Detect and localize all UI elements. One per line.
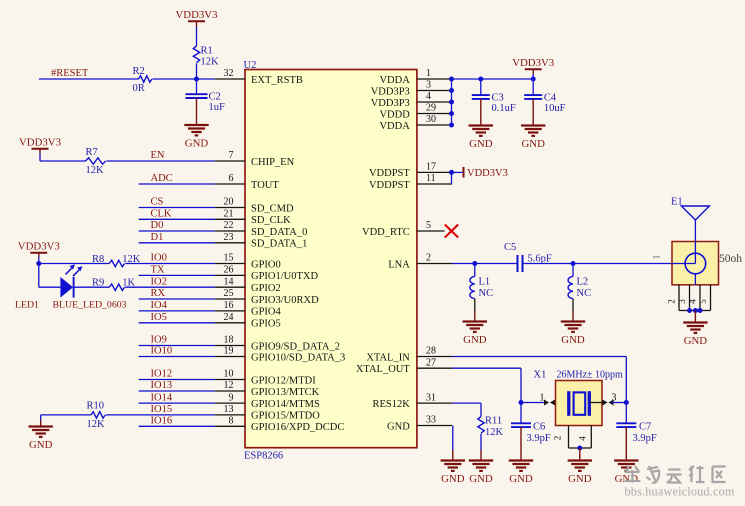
svg-text:GPIO12/MTDI: GPIO12/MTDI (251, 375, 316, 386)
LED1 value BLUE_LED_0603 (53, 300, 127, 311)
svg-text:GND: GND (441, 473, 465, 485)
svg-text:LNA: LNA (388, 259, 410, 270)
net label IO13 (151, 380, 173, 391)
svg-text:#RESET: #RESET (51, 68, 89, 79)
capacitor C2 (186, 92, 226, 114)
net label IO10 (151, 346, 173, 357)
svg-text:15: 15 (224, 253, 234, 264)
svg-text:VDD_RTC: VDD_RTC (362, 227, 410, 238)
svg-text:L1: L1 (479, 277, 491, 288)
svg-text:IO2: IO2 (151, 276, 167, 287)
svg-text:GND: GND (561, 334, 585, 346)
wire L2 to ground (572, 299, 574, 311)
svg-text:U2: U2 (244, 60, 257, 71)
wire IO4 (139, 310, 215, 312)
svg-text:GND: GND (521, 138, 545, 150)
inductor L2 NC (568, 277, 591, 300)
svg-text:RX: RX (151, 288, 166, 299)
svg-text:CLK: CLK (151, 209, 172, 220)
svg-text:LED1: LED1 (15, 300, 39, 311)
svg-text:D0: D0 (151, 220, 164, 231)
wire L1 lead (474, 264, 476, 277)
svg-text:VDDPST: VDDPST (369, 168, 410, 179)
node junction VDD3V3/R8/LED (36, 261, 41, 266)
wire RES12K to R11 (452, 403, 481, 416)
wire bus to C3 (480, 79, 482, 95)
capacitor C7 (616, 422, 657, 444)
net label ADC (151, 173, 173, 184)
svg-text:25: 25 (224, 288, 234, 299)
svg-text:L2: L2 (577, 277, 589, 288)
U2 part name ESP8266 (244, 451, 283, 462)
wire XTAL_IN (452, 357, 626, 403)
ground GND (C4) (521, 99, 545, 150)
ground GND (L2) (561, 311, 585, 346)
svg-text:20: 20 (224, 197, 234, 208)
wire IO10 (139, 356, 215, 358)
svg-text:VDDA: VDDA (379, 121, 410, 132)
svg-text:GPIO14/MTMS: GPIO14/MTMS (251, 399, 320, 410)
svg-text:BLUE_LED_0603: BLUE_LED_0603 (53, 300, 127, 311)
wire L2 lead (572, 264, 574, 277)
svg-text:12: 12 (224, 380, 234, 391)
wire EN (107, 160, 216, 162)
wire GND pin 33 (452, 426, 454, 451)
svg-text:30: 30 (426, 114, 436, 125)
svg-text:D1: D1 (151, 232, 164, 243)
svg-text:IO10: IO10 (151, 346, 173, 357)
wire node to C6 (520, 403, 522, 424)
wire R11 to ground (480, 434, 482, 450)
wire CLK (139, 218, 215, 220)
svg-text:29: 29 (426, 103, 436, 114)
svg-text:1: 1 (540, 392, 545, 403)
wire IO15 (106, 414, 215, 416)
svg-text:24: 24 (224, 312, 234, 323)
ground GND (pin 33) (441, 450, 465, 485)
svg-text:9: 9 (229, 392, 234, 403)
svg-text:VDDPST: VDDPST (369, 180, 410, 191)
crystal X1 designator (534, 370, 547, 381)
svg-text:3.9pF: 3.9pF (527, 433, 551, 444)
power port VDD3V3 (LED) (18, 241, 60, 257)
antenna E1 designator (671, 196, 683, 207)
svg-text:IO13: IO13 (151, 380, 173, 391)
svg-text:C7: C7 (639, 422, 651, 433)
svg-text:GND: GND (29, 439, 53, 451)
svg-text:C3: C3 (492, 92, 504, 103)
svg-text:C2: C2 (209, 92, 221, 103)
wire #RESET (39, 78, 139, 80)
svg-text:SD_DATA_1: SD_DATA_1 (251, 239, 307, 250)
wire node to R8 (39, 263, 110, 265)
ground GND (R11) (469, 450, 493, 485)
svg-text:IO5: IO5 (151, 312, 167, 323)
U2 left pin numbers (224, 68, 234, 426)
wire D0 (139, 230, 215, 232)
junction dot C4 tap (531, 77, 536, 82)
wire VDDPST to power port (452, 171, 463, 173)
svg-text:EN: EN (151, 150, 165, 161)
svg-text:32: 32 (224, 68, 234, 79)
svg-text:1uF: 1uF (209, 102, 226, 113)
svg-text:5.6pF: 5.6pF (528, 253, 552, 264)
svg-text:21: 21 (224, 209, 234, 220)
svg-text:GND: GND (509, 473, 533, 485)
pin number 3 (X1) (612, 392, 617, 403)
wire VDD3V3 to R7 (40, 153, 86, 161)
svg-text:IO16: IO16 (151, 416, 173, 427)
capacitor C3 (472, 92, 516, 114)
svg-text:VDDA: VDDA (379, 75, 410, 86)
svg-text:R11: R11 (485, 415, 502, 426)
net label TX (151, 265, 165, 276)
no-connect X on VDD_RTC pin 5 (445, 225, 458, 238)
connector E1 body (672, 242, 719, 285)
svg-text:ADC: ADC (151, 173, 173, 184)
svg-text:GPIO4: GPIO4 (251, 307, 282, 318)
wire IO13 (139, 390, 215, 392)
svg-text:17: 17 (426, 162, 436, 173)
U2 left pin stubs (215, 79, 245, 426)
svg-text:GPIO5: GPIO5 (251, 319, 281, 330)
wire VDD3V3 to node (38, 257, 40, 264)
svg-text:2: 2 (553, 436, 563, 441)
antenna symbol (681, 206, 709, 242)
svg-text:GPIO13/MTCK: GPIO13/MTCK (251, 387, 320, 398)
svg-text:SD_CMD: SD_CMD (251, 203, 294, 214)
wire GND to R10 (41, 415, 91, 420)
wire R1 to node (196, 63, 198, 79)
svg-text:5: 5 (698, 299, 708, 304)
svg-text:33: 33 (426, 415, 436, 426)
svg-text:GPIO16/XPD_DCDC: GPIO16/XPD_DCDC (251, 422, 344, 433)
svg-text:12K: 12K (485, 427, 504, 438)
junction dot C3 tap (478, 77, 483, 82)
capacitor C6 (511, 422, 551, 444)
wire VDD3V3 to bus (532, 74, 534, 79)
wire L1 to ground (474, 299, 476, 311)
resistor R7 (86, 147, 106, 176)
wire XTAL_OUT (452, 368, 521, 402)
svg-text:16: 16 (224, 300, 234, 311)
svg-text:31: 31 (426, 392, 436, 403)
wire LNA to C5 (452, 263, 518, 265)
node junction R1/R2/C2 (194, 77, 199, 82)
wire ADC (139, 183, 215, 185)
svg-text:5: 5 (426, 220, 431, 231)
svg-text:26MHz± 10ppm: 26MHz± 10ppm (557, 370, 624, 381)
net label IO12 (151, 369, 173, 380)
svg-text:14: 14 (224, 276, 234, 287)
svg-text:VDD3V3: VDD3V3 (512, 57, 554, 69)
wire power bus vertical (451, 79, 453, 125)
ground GND (E1) (683, 311, 707, 348)
svg-text:IO12: IO12 (151, 369, 173, 380)
ground GND (L1) (463, 311, 487, 346)
LED LED1 BLUE_LED_0603 (60, 264, 82, 297)
resistor R9 (92, 278, 135, 291)
svg-text:VDDD: VDDD (379, 109, 410, 120)
wire node to LED (39, 264, 61, 288)
svg-text:R7: R7 (86, 147, 98, 158)
svg-text:GND: GND (185, 138, 209, 150)
svg-text:26: 26 (224, 265, 234, 276)
pin number 1 (E1) (652, 255, 662, 260)
svg-text:7: 7 (229, 150, 234, 161)
svg-text:R10: R10 (87, 400, 105, 411)
svg-text:C5: C5 (504, 242, 516, 253)
svg-text:4: 4 (578, 436, 588, 441)
wire IO12 (139, 379, 215, 381)
svg-text:10: 10 (224, 369, 234, 380)
wire CS (139, 207, 215, 209)
svg-text:2: 2 (426, 253, 431, 264)
svg-text:3: 3 (612, 392, 617, 403)
svg-text:12K: 12K (86, 165, 105, 176)
svg-text:28: 28 (426, 346, 436, 357)
svg-text:SD_DATA_0: SD_DATA_0 (251, 227, 307, 238)
svg-text:12K: 12K (201, 56, 220, 67)
wire C5 to antenna (523, 263, 673, 265)
svg-text:12K: 12K (87, 419, 106, 430)
svg-text:10uF: 10uF (544, 103, 566, 114)
svg-text:GND: GND (469, 138, 493, 150)
wire D1 (139, 242, 215, 244)
svg-text:3.9pF: 3.9pF (633, 433, 657, 444)
wire power bus horizontal (452, 78, 534, 80)
U2 right pin stubs (417, 79, 452, 426)
net label CLK (151, 209, 172, 220)
net label IO9 (151, 335, 167, 346)
U2 designator (244, 60, 257, 71)
svg-text:ESP8266: ESP8266 (244, 451, 283, 462)
svg-text:GPIO15/MTDO: GPIO15/MTDO (251, 411, 320, 422)
wire IO2 (125, 286, 215, 288)
U2 right pin numbers (426, 68, 436, 426)
svg-text:VDD3P3: VDD3P3 (371, 86, 410, 97)
svg-text:0R: 0R (133, 83, 145, 94)
ground GND (C3) (469, 99, 493, 150)
svg-text:GPIO2: GPIO2 (251, 283, 281, 294)
svg-text:27: 27 (426, 357, 436, 368)
resistor R11 (478, 415, 504, 437)
svg-text:IO4: IO4 (151, 300, 168, 311)
svg-text:IO9: IO9 (151, 335, 167, 346)
svg-text:IO0: IO0 (151, 253, 167, 264)
power port VDD3V3 (C4) (512, 57, 554, 74)
U2 left pin names (251, 75, 345, 433)
svg-text:GPIO1/U0TXD: GPIO1/U0TXD (251, 271, 318, 282)
svg-text:19: 19 (224, 346, 234, 357)
ground GND (C2) (184, 98, 208, 150)
svg-text:3: 3 (426, 80, 431, 91)
LED1 designator (15, 300, 39, 311)
svg-text:C4: C4 (544, 92, 557, 103)
power port VDD3V3 (EN) (19, 137, 61, 154)
net label #RESET (51, 68, 89, 79)
svg-text:VDD3P3: VDD3P3 (371, 98, 410, 109)
U2 right pin names (356, 75, 411, 433)
wire node to C7 (625, 403, 627, 424)
wire IO9 (139, 345, 215, 347)
wire crystal pin3 to node (612, 402, 627, 404)
svg-text:XTAL_OUT: XTAL_OUT (356, 364, 411, 375)
net label IO5 (151, 312, 167, 323)
wire RX (139, 298, 215, 300)
junction dot L1 tap (472, 261, 477, 266)
svg-text:R1: R1 (201, 46, 213, 57)
svg-text:13: 13 (224, 404, 234, 415)
svg-text:TOUT: TOUT (251, 180, 279, 191)
wire R2 to pin 32 (153, 78, 216, 80)
svg-text:VDD3V3: VDD3V3 (176, 9, 218, 21)
value 50oh (719, 253, 742, 265)
crystal bottom pins 2,4 (553, 426, 592, 449)
wire to crystal pin 1 (521, 402, 546, 404)
svg-text:1: 1 (426, 68, 431, 79)
svg-text:bbs.huaweicloud.com: bbs.huaweicloud.com (625, 485, 735, 499)
power port VDD3V3 (VDDPST) (464, 167, 508, 179)
power port VDD3V3 (top, R1) (176, 9, 218, 27)
svg-text:4: 4 (426, 91, 431, 102)
svg-text:VDD3V3: VDD3V3 (18, 241, 60, 253)
svg-text:4: 4 (688, 299, 698, 304)
svg-text:2: 2 (667, 299, 677, 304)
svg-text:GPIO9/SD_DATA_2: GPIO9/SD_DATA_2 (251, 341, 340, 352)
watermark text (625, 466, 735, 499)
junction dot crystal bottom (577, 446, 582, 451)
net label CS (151, 197, 164, 208)
net label IO15 (151, 404, 173, 415)
svg-text:1: 1 (652, 255, 662, 260)
svg-text:NC: NC (479, 288, 494, 299)
junction dot VDDPST (449, 170, 454, 175)
junction dots E1 bottom (687, 308, 703, 313)
junction dot crystal left (519, 400, 524, 405)
svg-text:50oh: 50oh (719, 253, 742, 265)
svg-text:NC: NC (577, 288, 592, 299)
svg-text:R2: R2 (133, 66, 145, 77)
svg-text:R8: R8 (92, 254, 104, 265)
svg-text:GND: GND (568, 473, 592, 485)
svg-text:3: 3 (677, 299, 687, 304)
svg-text:IO15: IO15 (151, 404, 173, 415)
svg-text:R9: R9 (92, 278, 104, 289)
svg-text:VDD3V3: VDD3V3 (19, 137, 61, 149)
capacitor C5 (504, 242, 552, 272)
svg-text:6: 6 (229, 173, 234, 184)
svg-text:GND: GND (387, 422, 410, 433)
wire VDD3V3 to R1 (196, 27, 198, 46)
net label D0 (151, 220, 164, 231)
svg-text:18: 18 (224, 335, 234, 346)
svg-text:GPIO10/SD_DATA_3: GPIO10/SD_DATA_3 (251, 352, 345, 363)
svg-text:CS: CS (151, 197, 164, 208)
wire LED to R9 (75, 286, 110, 288)
wire IO14 (139, 402, 215, 404)
wire IO5 (139, 322, 215, 324)
svg-text:C6: C6 (533, 422, 545, 433)
capacitor C4 (524, 92, 565, 114)
svg-text:23: 23 (224, 232, 234, 243)
wire bus to C4 (532, 79, 534, 95)
svg-text:8: 8 (229, 416, 234, 427)
IC U2 ESP8266 body (245, 70, 417, 448)
ground GND (C7) (614, 427, 638, 485)
junction dots power bus (449, 77, 454, 128)
resistor R2 (133, 66, 152, 94)
resistor R10 (87, 400, 106, 430)
wire IO0 (125, 263, 215, 265)
svg-text:SD_CLK: SD_CLK (251, 215, 291, 226)
E1 bottom pins 2-5 (667, 285, 711, 311)
net label IO0 (151, 253, 167, 264)
net label IO14 (151, 392, 173, 403)
ground GND (crystal) (568, 448, 592, 485)
ground GND (C6) (509, 427, 533, 485)
svg-text:XTAL_IN: XTAL_IN (366, 352, 410, 363)
resistor R8 (92, 254, 141, 267)
crystal pin 1 glyph (544, 400, 568, 406)
svg-text:GPIO3/U0RXD: GPIO3/U0RXD (251, 295, 319, 306)
junction dot crystal right (624, 400, 629, 405)
svg-text:GND: GND (615, 473, 639, 485)
wire TX (139, 274, 215, 276)
net label IO16 (151, 416, 173, 427)
wire node to C2 (196, 79, 198, 94)
svg-text:GND: GND (463, 334, 487, 346)
inductor L1 NC (470, 277, 493, 300)
crystal pin 3 glyph (589, 400, 614, 406)
junction dot L2 tap (571, 261, 576, 266)
net label EN (151, 150, 165, 161)
net label IO4 (151, 300, 168, 311)
svg-text:GND: GND (684, 335, 708, 347)
svg-text:CHIP_EN: CHIP_EN (251, 157, 295, 168)
svg-text:11: 11 (426, 173, 436, 184)
svg-text:RES12K: RES12K (372, 399, 410, 410)
wire VDDPST vertical (451, 172, 453, 184)
svg-text:0.1uF: 0.1uF (492, 103, 516, 114)
ground GND (R10) (29, 420, 53, 451)
net label D1 (151, 232, 164, 243)
svg-text:22: 22 (224, 220, 234, 231)
svg-text:GPIO0: GPIO0 (251, 259, 281, 270)
svg-text:IO14: IO14 (151, 392, 173, 403)
wire IO16 (139, 425, 215, 427)
pin number 1 (X1) (540, 392, 545, 403)
crystal X1 value 26MHz (557, 370, 624, 381)
svg-text:X1: X1 (534, 370, 547, 381)
svg-text:TX: TX (151, 265, 165, 276)
net label IO2 (151, 276, 167, 287)
svg-text:GND: GND (469, 473, 493, 485)
svg-text:VDD3V3: VDD3V3 (467, 168, 508, 179)
resistor R1 (193, 46, 219, 68)
net label RX (151, 288, 166, 299)
crystal X1 body (556, 381, 603, 426)
svg-text:EXT_RSTB: EXT_RSTB (251, 75, 303, 86)
